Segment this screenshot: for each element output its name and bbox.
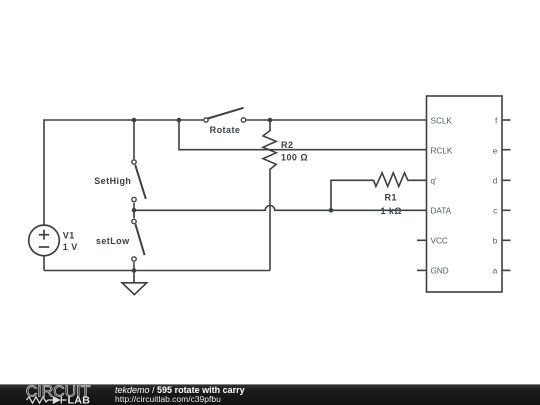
svg-text:100 Ω: 100 Ω bbox=[281, 153, 308, 163]
svg-text:a: a bbox=[493, 266, 498, 275]
svg-text:LAB: LAB bbox=[68, 395, 91, 405]
svg-text:V1: V1 bbox=[63, 230, 75, 240]
svg-text:VCC: VCC bbox=[431, 236, 448, 245]
svg-text:R1: R1 bbox=[385, 193, 397, 203]
svg-text:DATA: DATA bbox=[431, 206, 452, 215]
svg-text:d: d bbox=[493, 176, 498, 185]
svg-text:b: b bbox=[493, 236, 498, 245]
svg-text:RCLK: RCLK bbox=[431, 146, 453, 155]
svg-text:SetHigh: SetHigh bbox=[94, 176, 131, 186]
svg-text:R2: R2 bbox=[281, 140, 293, 150]
svg-text:SCLK: SCLK bbox=[431, 116, 453, 125]
svg-text:q': q' bbox=[431, 176, 438, 185]
svg-text:Rotate: Rotate bbox=[210, 125, 241, 135]
svg-text:setLow: setLow bbox=[96, 236, 130, 246]
svg-text:c: c bbox=[493, 206, 497, 215]
svg-text:e: e bbox=[493, 146, 498, 155]
svg-text:GND: GND bbox=[431, 266, 449, 275]
svg-text:http://circuitlab.com/c39pfbu: http://circuitlab.com/c39pfbu bbox=[115, 394, 221, 404]
svg-text:1 kΩ: 1 kΩ bbox=[381, 206, 403, 216]
svg-text:1 V: 1 V bbox=[63, 242, 78, 252]
